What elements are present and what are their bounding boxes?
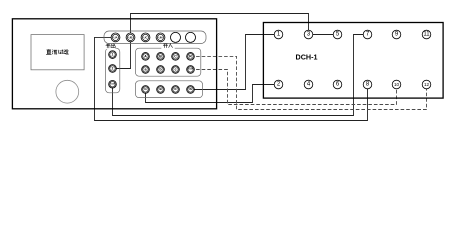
svg-text:DCH-1: DCH-1 [296,53,318,62]
svg-text:IA: IA [144,87,147,91]
svg-text:IB: IB [159,87,162,91]
svg-text:IN: IN [189,87,192,91]
svg-text:A: A [144,55,147,59]
svg-text:C: C [174,55,177,59]
svg-text:c: c [174,68,176,72]
svg-text:B: B [159,55,162,59]
svg-text:IC: IC [174,87,177,91]
svg-text:UA: UA [113,36,117,40]
svg-text:12: 12 [424,82,430,87]
svg-text:11: 11 [423,32,430,38]
svg-text:UC: UC [143,36,147,40]
svg-text:2: 2 [112,67,114,71]
svg-text:R: R [189,55,192,59]
svg-text:COM: COM [188,69,193,71]
svg-text:10: 10 [394,82,400,87]
svg-text:1: 1 [112,53,114,57]
svg-text:UN: UN [158,36,162,40]
svg-text:COM: COM [110,83,115,85]
svg-text:UB: UB [128,36,132,40]
